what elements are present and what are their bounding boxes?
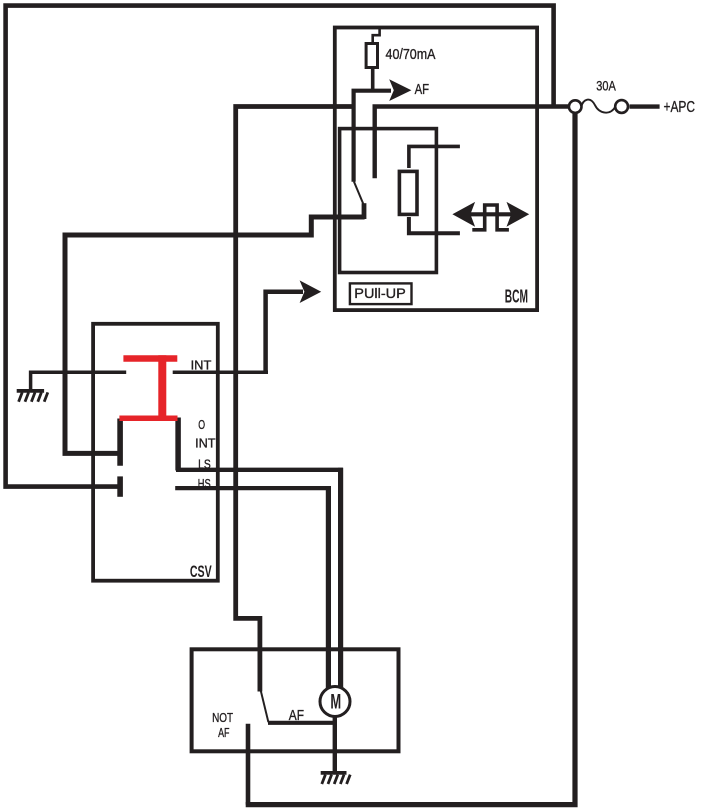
svg-text:CSV: CSV [190,563,212,581]
svg-text:+APC: +APC [664,99,696,116]
svg-text:30A: 30A [596,78,616,94]
svg-text:M: M [330,689,341,713]
svg-text:NOT: NOT [212,711,233,725]
svg-text:BCM: BCM [505,287,528,307]
svg-text:LS: LS [198,457,211,471]
svg-text:INT: INT [191,358,212,372]
svg-text:40/70mA: 40/70mA [386,46,436,63]
svg-text:INT: INT [195,437,216,451]
svg-text:AF: AF [218,726,230,740]
svg-text:HS: HS [198,477,211,491]
svg-text:PUll-UP: PUll-UP [354,286,406,302]
svg-text:AF: AF [415,81,430,98]
svg-text:O: O [198,418,205,432]
svg-text:AF: AF [289,707,304,724]
